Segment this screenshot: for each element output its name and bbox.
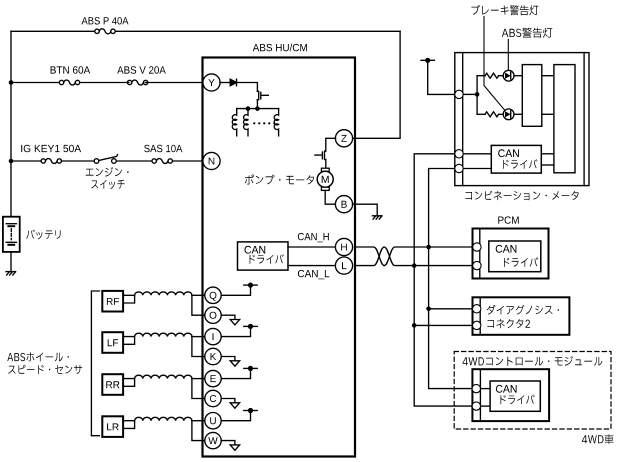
motor brush bottom (321, 187, 329, 190)
label pump motor (245, 175, 314, 185)
wire CAN_H to diag connector (429, 308, 472, 310)
CAN driver box meter (491, 145, 541, 173)
sensor LR box (102, 416, 123, 437)
wire I to supply tap (221, 326, 250, 336)
meter connector strip left (462, 53, 464, 186)
fuse ABS V 20A (127, 80, 131, 84)
fuse ABS P 40A (95, 29, 99, 33)
sensor LF box (102, 332, 123, 353)
transistor Q2 (pump motor FET) (315, 151, 326, 159)
wire top lamp branch (477, 75, 485, 77)
wire driver to mcu top (542, 75, 554, 77)
wire supply to meter (428, 60, 455, 94)
solenoid valve coil 2 (244, 109, 248, 136)
twisted pair RR coil wave (135, 375, 192, 378)
wire LR leads to twisted pair (123, 421, 135, 429)
wire meter pin to CAN driver bottom (464, 168, 492, 170)
battery plates (6, 223, 16, 225)
terminal C (205, 390, 221, 406)
label PCM (498, 216, 518, 223)
wire W to ground (221, 441, 235, 445)
wire IG row to terminal N (11, 160, 203, 162)
wire meter CAN driver to mcu bottom (541, 164, 554, 166)
wire meter CAN driver to mcu top (541, 153, 554, 155)
pump motor M (317, 171, 333, 187)
ground arrow W (230, 445, 239, 450)
label battery (26, 230, 60, 240)
label diagnosis connector line1 (487, 305, 559, 315)
wire bottom lamp branch (477, 113, 485, 115)
label ABS HU/CM (253, 44, 307, 52)
connector pin PCM CAN_L (473, 261, 481, 269)
ground B terminal (372, 215, 382, 217)
wire ABS lamp to driver box (514, 75, 522, 77)
wire RR leads to twisted pair (123, 379, 135, 387)
diode D1 (230, 79, 236, 86)
leader ABS warning (507, 40, 509, 71)
wire CAN bus branch B (CAN_H) (429, 169, 472, 389)
supply tap node I (244, 325, 257, 327)
label ABS wheel sensor line2 (8, 365, 82, 374)
resistor brake warning (485, 112, 499, 117)
wire pair to terminal U (192, 420, 205, 422)
diag connector strip (479, 297, 481, 335)
wire CAN driver to H (288, 246, 336, 248)
fuse IG KEY1 50A (41, 159, 45, 163)
box meter lamp driver (522, 65, 542, 127)
wire B to ground (352, 204, 377, 216)
solenoid valve coil 3 (274, 109, 278, 136)
node A CAN_L junction (412, 263, 417, 268)
terminal Y (203, 74, 220, 91)
terminal H (335, 238, 352, 255)
solenoid valve coil 1 (232, 109, 236, 136)
connector pin meter CAN bottom (455, 164, 463, 172)
twisted pair RF coil wave (135, 292, 192, 295)
terminal Z (335, 130, 352, 147)
wire CAN driver to L (288, 265, 336, 267)
wire Q to supply tap (221, 285, 250, 295)
node B CAN_H junction (426, 245, 431, 250)
ground arrow C (230, 403, 239, 408)
connector pin diag CAN_L (473, 321, 481, 329)
twisted pair CAN_H (356, 247, 473, 266)
terminal W (205, 432, 221, 448)
wire C to ground (221, 399, 235, 403)
box PCM (473, 229, 549, 279)
wire meter power to lamp node (464, 93, 478, 95)
wire top rail from battery bus to Z riser (11, 30, 400, 32)
label engine switch line1 (86, 167, 129, 177)
CAN driver box ABS (238, 242, 289, 270)
label 4WD control module (463, 356, 603, 366)
wire U to supply tap (221, 411, 250, 421)
PCM connector strip (479, 229, 481, 279)
wire FET to solenoid rail (256, 100, 258, 109)
label CAN_H (298, 233, 329, 242)
wire left battery bus (10, 31, 12, 216)
wire pair to terminal Q (192, 294, 205, 296)
node B diag junction (426, 307, 431, 312)
ground battery (6, 271, 16, 273)
resistor ABS warning (485, 73, 499, 78)
wire resistor to brake lamp (499, 113, 504, 115)
wire RF leads to twisted pair (123, 295, 135, 303)
label combination meter (465, 191, 578, 201)
wire CAN_L to diag connector (414, 324, 472, 326)
motor brush top (321, 168, 329, 171)
terminal O (205, 307, 221, 323)
label BTN 60A (51, 66, 91, 73)
terminal Q (205, 287, 221, 303)
lamp brake warning light (503, 109, 514, 120)
connector pin PCM CAN_H (473, 243, 481, 251)
twisted pair CAN_L (356, 247, 473, 266)
label diagnosis connector line2 (487, 319, 530, 328)
terminal E (205, 370, 221, 386)
terminal L (335, 257, 352, 274)
wire pair to terminal I (192, 336, 205, 338)
wire motor to B (325, 190, 335, 204)
leader brake warning (484, 17, 505, 111)
wire E to supply tap (221, 368, 250, 378)
ellipsis more valves (254, 122, 274, 124)
wire Y to diode (220, 82, 230, 84)
connector pin diag CAN_H (473, 305, 481, 313)
supply tap node E (244, 367, 257, 369)
meter connector strip right (583, 53, 585, 186)
label engine switch line2 (91, 180, 124, 189)
switch engine (contacts and blade) (94, 159, 99, 164)
supply tap node U (244, 410, 257, 412)
wire Z to FET Q2 (326, 138, 336, 151)
ground arrow K (230, 361, 239, 366)
CAN driver box PCM (489, 241, 541, 272)
terminal N (203, 152, 220, 169)
label ABS warning light (502, 28, 552, 38)
box 4WD dashed (454, 352, 611, 430)
node junction bus-BTN row (9, 80, 14, 85)
wire pair to terminal E (192, 378, 205, 380)
wire pair drop to terminal O (192, 295, 205, 315)
battery B+ box (3, 217, 20, 252)
label IG KEY1 50A (21, 145, 81, 152)
connector pin meter power (455, 90, 463, 98)
box ABS HU/CM (203, 58, 356, 457)
node rail-coil2 (246, 106, 251, 111)
wire 4WD pin to CAN driver top (481, 388, 490, 390)
fuse BTN 60A (59, 80, 63, 84)
wire meter pin to CAN driver top (464, 153, 492, 155)
box 4WD control module (472, 369, 549, 421)
supply tap node Q (244, 284, 257, 286)
node A diag junction (412, 323, 417, 328)
4WD connector strip (479, 369, 481, 421)
box combination meter (455, 53, 589, 186)
connector pin 4WD CAN_H (472, 384, 480, 392)
wire lamp branch vertical (476, 76, 478, 115)
label ABS P 40A (82, 17, 129, 24)
label 4WD car (582, 434, 614, 444)
CAN driver box 4WD (490, 381, 540, 411)
sensor RF box (102, 291, 123, 312)
wire driver to mcu bottom (542, 113, 554, 115)
node junction bus-IG row (9, 159, 14, 164)
terminal K (205, 348, 221, 364)
wire Z riser to top rail (352, 31, 400, 138)
lamp ABS warning light (503, 70, 514, 81)
node lamp branch (475, 92, 480, 97)
wire resistor to ABS lamp (499, 75, 504, 77)
label ABS wheel sensor line1 (7, 352, 69, 361)
wire pair drop to terminal W (192, 421, 205, 441)
transistor Q1 (solenoid driver FET) (257, 91, 268, 99)
label SAS 10A (144, 145, 182, 152)
terminal B (335, 196, 352, 213)
wire CAN bus branch A (CAN_L) (414, 154, 472, 406)
twisted pair LF coil wave (135, 333, 192, 336)
wire solenoid rail (237, 108, 279, 110)
wire LF leads to twisted pair (123, 337, 135, 345)
label CAN_L (298, 270, 329, 279)
fuse SAS 10A (152, 159, 156, 163)
label ABS V 20A (117, 66, 166, 73)
bracket ABS wheel speed sensors (91, 291, 99, 436)
node rail-FET (255, 106, 260, 111)
terminal I (205, 328, 221, 344)
terminal U (205, 413, 221, 429)
wire BTN row to terminal Y (11, 82, 203, 84)
wire brake lamp to driver box (514, 113, 522, 115)
wire FET to motor (325, 160, 327, 169)
wire 4WD pin to CAN driver bottom (481, 405, 490, 407)
label brake warning light (471, 5, 538, 15)
connector pin meter CAN top (455, 150, 463, 158)
wire K to ground (221, 357, 235, 361)
box diagnosis connector 2 (473, 297, 570, 335)
connector pin 4WD CAN_L (472, 402, 480, 410)
ground arrow O (230, 320, 239, 325)
supply tap meter (421, 59, 434, 61)
wire pair drop to terminal K (192, 337, 205, 357)
twisted pair LR coil wave (135, 417, 192, 420)
wire O to ground (221, 315, 235, 319)
sensor RR box (102, 374, 123, 395)
wire diode to FET Q1 (237, 83, 258, 92)
wire battery to ground (10, 252, 12, 272)
wire pair drop to terminal C (192, 379, 205, 399)
box meter mcu (554, 65, 575, 173)
